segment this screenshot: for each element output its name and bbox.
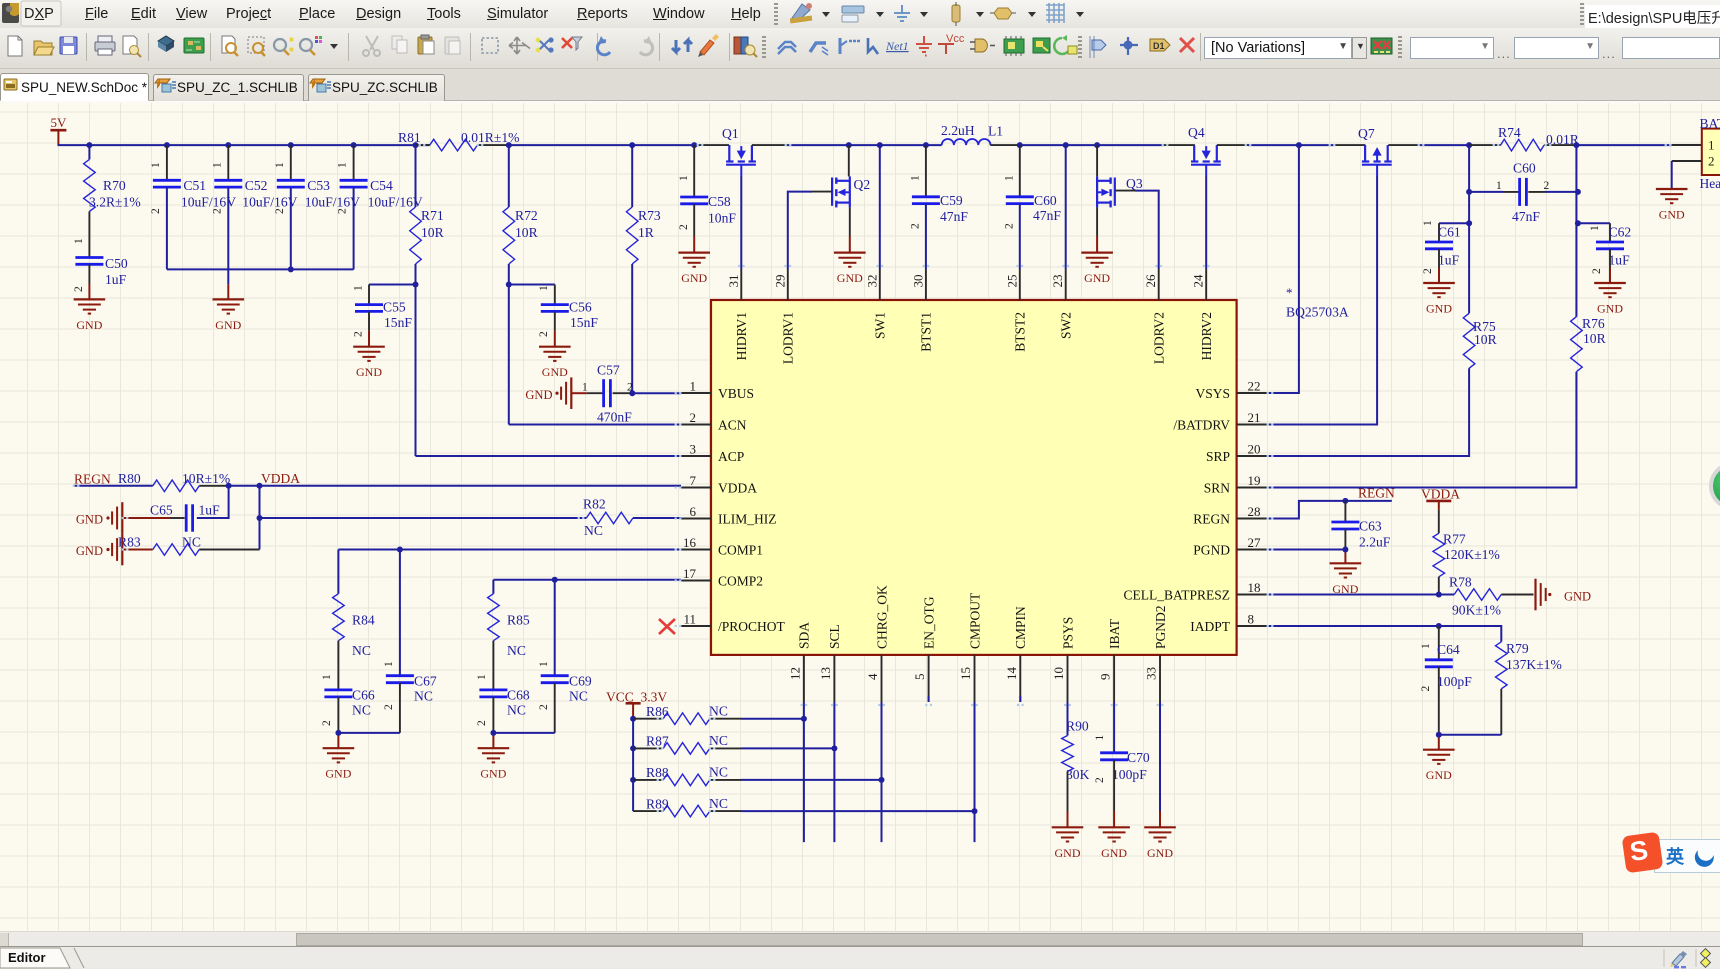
menu toolbar icon: drawing tools <box>790 3 830 24</box>
tab icon: schematic document <box>4 79 17 90</box>
svg-text:100pF: 100pF <box>1437 674 1472 689</box>
svg-text:2: 2 <box>538 331 550 337</box>
wire pin 27 to C63/GND <box>1267 550 1346 564</box>
svg-text:10R±1%: 10R±1% <box>182 471 230 486</box>
junction dot VSYS column <box>1296 142 1302 148</box>
menu toolbar icon: align <box>842 6 884 22</box>
ground GND under C63 <box>1330 563 1362 596</box>
svg-text:C66: C66 <box>352 688 375 703</box>
svg-text:10R: 10R <box>1474 332 1498 347</box>
svg-text:R78: R78 <box>1449 574 1472 589</box>
resistor R86 (NC) pullup to SDA <box>633 704 804 725</box>
net label VDDA <box>261 471 300 486</box>
svg-text:C53: C53 <box>307 178 330 193</box>
svg-text:R72: R72 <box>515 208 538 223</box>
junction dots VDDA node <box>226 483 263 489</box>
svg-text:C60: C60 <box>1513 161 1536 176</box>
junction dot R89 to CMPOUT column <box>972 808 978 814</box>
toolbar icon: place ports <box>1090 36 1106 58</box>
capacitor C58 (10nF) <box>678 145 736 253</box>
U1 pin 15 (CMPOUT) bottom <box>958 592 982 702</box>
U1 pin 1 (VBUS) left <box>681 379 754 401</box>
ground GND left of R83 <box>76 534 122 566</box>
svg-text:GND: GND <box>76 318 102 332</box>
toolbar icon: place component <box>1004 36 1024 56</box>
junction dot C68 bottom <box>490 730 496 736</box>
svg-text:2: 2 <box>211 208 223 214</box>
variations dropdown arrow <box>1344 44 1352 49</box>
svg-text:6: 6 <box>690 504 697 519</box>
svg-text:R90: R90 <box>1066 719 1089 734</box>
wire rail R81 to Q1 <box>509 144 729 146</box>
svg-text:/PROCHOT: /PROCHOT <box>718 619 786 634</box>
svg-text:3: 3 <box>690 442 697 457</box>
svg-text:1: 1 <box>353 285 365 291</box>
svg-text:C56: C56 <box>569 300 592 315</box>
wire C68/C69 common to ground <box>493 733 554 748</box>
junction dots R72/R73/C58 branches <box>506 142 697 148</box>
svg-text:15: 15 <box>958 667 973 680</box>
svg-text:1: 1 <box>1708 138 1715 153</box>
svg-text:5: 5 <box>912 674 927 681</box>
svg-text:R85: R85 <box>507 613 530 628</box>
U1 pin 29 (LODRV1) top <box>772 269 795 364</box>
wire C52 column to ground <box>227 269 229 299</box>
toolbar icon: paste special (disabled) <box>445 37 460 54</box>
svg-text:GND: GND <box>215 318 241 332</box>
svg-text:31: 31 <box>726 275 741 288</box>
U1 pin 14 (CMPIN) bottom <box>1004 606 1028 702</box>
svg-text:0.01R±1%: 0.01R±1% <box>461 130 519 145</box>
svg-text:C50: C50 <box>105 256 128 271</box>
svg-text:LODRV1: LODRV1 <box>781 312 796 364</box>
svg-text:1: 1 <box>150 162 162 168</box>
capacitor C52 (10uF/16V) <box>211 145 297 269</box>
svg-text:10R: 10R <box>1583 331 1607 346</box>
resistor R85 (NC) <box>476 580 530 690</box>
toolbar icon: browse component library <box>734 37 757 57</box>
svg-text:GND: GND <box>1101 846 1127 860</box>
svg-text:32: 32 <box>864 275 879 288</box>
svg-text:1: 1 <box>383 661 395 667</box>
svg-text:NC: NC <box>352 643 371 658</box>
svg-text:VDDA: VDDA <box>1421 486 1460 501</box>
wire bus joining C51-C54 bottoms <box>167 268 354 270</box>
svg-text:C52: C52 <box>245 178 268 193</box>
wire ACP row (R71 to pin 3) <box>416 455 682 457</box>
svg-text:GND: GND <box>837 271 863 285</box>
svg-text:CMPIN: CMPIN <box>1013 606 1028 649</box>
svg-text:GND: GND <box>1147 846 1173 860</box>
U1 pin 32 (SW1) top <box>864 269 887 339</box>
wire SW1 column (rail to pin 32) <box>879 145 881 269</box>
svg-text:C70: C70 <box>1127 750 1150 765</box>
svg-text:BAT: BAT <box>1700 116 1720 131</box>
svg-text:Q4: Q4 <box>1188 125 1205 140</box>
svg-text:C65: C65 <box>150 503 173 518</box>
toolbar icon: net label <box>885 39 909 53</box>
resistor R74 (0.01R) <box>1469 125 1580 151</box>
wire Q4 gate to HIDRV2 pin 24 <box>1205 176 1207 269</box>
svg-text:NC: NC <box>709 704 728 719</box>
floating green button <box>1709 462 1720 510</box>
wire rail Q7 to R74 <box>1388 144 1469 146</box>
svg-text:GND: GND <box>76 513 103 527</box>
power port 5V <box>50 115 67 145</box>
junction dots C60 right column <box>1575 189 1581 226</box>
svg-text:1: 1 <box>1004 175 1016 181</box>
svg-text:SDA: SDA <box>797 622 812 649</box>
svg-text:HIDRV2: HIDRV2 <box>1199 312 1214 360</box>
svg-text:CHRG_OK: CHRG_OK <box>874 585 889 649</box>
svg-text:2: 2 <box>910 223 922 229</box>
svg-text:C54: C54 <box>370 178 393 193</box>
svg-text:/BATDRV: /BATDRV <box>1173 417 1230 432</box>
ground GND under C52 <box>213 299 245 332</box>
wire COMP1 row to pin 16 <box>338 549 681 551</box>
wire R72 column down to ACN row <box>508 285 510 425</box>
ground GND under C56 <box>539 347 571 380</box>
toolbar icon: open <box>34 41 54 55</box>
junction dot R87 to SCL column <box>831 745 837 751</box>
svg-text:2: 2 <box>1708 154 1715 169</box>
resistor R84 (NC) <box>321 550 375 690</box>
capacitor C53 (10uF/16V) <box>274 145 360 269</box>
svg-text:PSYS: PSYS <box>1060 617 1075 649</box>
capacitor C62 (1uF) <box>1576 223 1631 283</box>
svg-text:1: 1 <box>1420 643 1432 649</box>
wire ILIM_HIZ row <box>260 486 587 550</box>
U1 pin 31 (HIDRV1) top <box>726 269 749 360</box>
svg-text:2.2uF: 2.2uF <box>1359 535 1391 550</box>
toolbar icon: paste <box>418 35 434 54</box>
svg-text:15nF: 15nF <box>570 315 598 330</box>
svg-text:2: 2 <box>150 208 162 214</box>
svg-text:R73: R73 <box>638 208 661 223</box>
svg-text:1: 1 <box>538 285 550 291</box>
svg-text:1: 1 <box>274 162 286 168</box>
junction dots on switch-node rail <box>846 142 1100 148</box>
wire C65 riser <box>197 486 229 518</box>
svg-text:1: 1 <box>538 661 550 667</box>
svg-text:D1: D1 <box>1153 41 1165 51</box>
svg-text:R88: R88 <box>646 765 669 780</box>
menu toolbar icon: part <box>952 2 984 26</box>
resistor R73 (1R) <box>626 145 660 393</box>
wire REGN stub <box>74 485 153 487</box>
svg-text:2: 2 <box>383 704 395 710</box>
wire SW2 column (rail to pin 23) <box>1065 145 1067 269</box>
svg-text:14: 14 <box>1004 666 1019 680</box>
svg-text:2: 2 <box>1094 777 1106 783</box>
power port VDDA right <box>1421 486 1460 510</box>
resistor R72 (10R) <box>503 145 539 284</box>
toolbar icon: print <box>95 36 115 55</box>
svg-text:GND: GND <box>76 544 103 558</box>
toolbar icon: place bus <box>810 43 828 55</box>
svg-text:2: 2 <box>1544 180 1550 192</box>
svg-text:GND: GND <box>1426 302 1452 316</box>
toolbar icon: sheet entry <box>1054 35 1077 54</box>
svg-text:C67: C67 <box>414 674 437 689</box>
svg-text:1: 1 <box>337 162 349 168</box>
wire 5V rail from 5V port to R81 <box>58 144 430 146</box>
svg-text:2: 2 <box>337 208 349 214</box>
svg-text:33: 33 <box>1144 667 1159 680</box>
ground GND under R85/C68 <box>478 748 510 781</box>
ground GND under C62 <box>1594 283 1626 316</box>
wire pin 18 to R77/R78 <box>1267 594 1455 596</box>
svg-text:NC: NC <box>569 689 588 704</box>
wire VDDA row to pin 7 <box>229 485 681 487</box>
svg-text:IBAT: IBAT <box>1107 618 1122 649</box>
svg-text:PGND2: PGND2 <box>1153 605 1168 649</box>
svg-text:8: 8 <box>1248 612 1255 627</box>
toolbar icon: print preview <box>123 36 141 57</box>
U1 pin 3 (ACP) left <box>681 442 744 464</box>
U1 pin 23 (SW2) top <box>1050 269 1073 339</box>
svg-text:10R: 10R <box>421 225 445 240</box>
capacitor C64 (100pF) <box>1420 626 1472 735</box>
U1 pin 20 (SRP) right <box>1206 442 1267 464</box>
capacitor C66 (NC) <box>321 688 375 733</box>
wire Q3 gate to LODRV2 pin 26 <box>1115 191 1159 269</box>
svg-text:BTST2: BTST2 <box>1013 312 1028 352</box>
svg-text:BTST1: BTST1 <box>919 312 934 352</box>
toolbar icon: hierarchy up/down <box>672 40 692 52</box>
svg-text:2.2uH: 2.2uH <box>941 123 975 138</box>
toolbar icon: new document <box>8 36 22 56</box>
toolbar icon: undo <box>597 36 610 55</box>
svg-text:1: 1 <box>321 674 333 680</box>
svg-text:REGN: REGN <box>74 472 111 487</box>
U1 pin 18 (CELL_BATPRESZ) right <box>1123 580 1266 602</box>
svg-text:ILIM_HIZ: ILIM_HIZ <box>718 511 776 526</box>
svg-text:9: 9 <box>1098 674 1113 681</box>
capacitor C68 (NC) <box>476 688 530 733</box>
capacitor C67 (NC) <box>383 550 437 733</box>
wire COMP2 row to pin 17 <box>493 579 681 581</box>
svg-text:2: 2 <box>678 224 690 230</box>
svg-text:SW1: SW1 <box>873 312 888 339</box>
toolbar icon: VCC port <box>938 33 965 54</box>
svg-text:2: 2 <box>353 331 365 337</box>
capacitor C60 (47nF) bootstrap 2 <box>1004 145 1062 269</box>
svg-text:PGND: PGND <box>1193 542 1230 557</box>
svg-text:R84: R84 <box>352 613 375 628</box>
U1 pin 28 (REGN) right <box>1193 504 1266 526</box>
svg-text:1uF: 1uF <box>199 503 221 518</box>
svg-text:2: 2 <box>1004 223 1016 229</box>
svg-text:NC: NC <box>709 796 728 811</box>
capacitor C69 (NC) <box>538 580 592 733</box>
U1 pin 5 (EN_OTG) bottom <box>912 596 936 702</box>
editor tab <box>0 948 84 968</box>
toolbar icon: place part tool <box>868 38 878 54</box>
svg-text:L1: L1 <box>988 124 1003 139</box>
toolbar icon: zoom document <box>222 36 238 56</box>
wire pin 8 IADPT row <box>1267 626 1502 642</box>
resistor R90 (30K) on PSYS <box>1062 702 1090 827</box>
svg-text:470nF: 470nF <box>597 410 632 425</box>
ground GND under C58 <box>678 253 710 286</box>
ground GND under C64 <box>1423 750 1455 783</box>
toolbar icon: no-ERC cross <box>1180 38 1194 52</box>
combo arrow 2 <box>1583 45 1592 50</box>
svg-text:R77: R77 <box>1443 532 1466 547</box>
toolbar icon: junction <box>1120 37 1138 55</box>
svg-text:2: 2 <box>1420 686 1432 692</box>
ground GND under R90 <box>1052 827 1084 860</box>
svg-text:NC: NC <box>182 535 201 550</box>
svg-text:VCC_3.3V: VCC_3.3V <box>606 690 667 705</box>
wire C64/R79 common to ground <box>1439 735 1502 750</box>
svg-text:VBUS: VBUS <box>718 386 754 401</box>
wire CHRG_OK column below IC <box>881 702 883 842</box>
toolbar icon: clear filter <box>562 37 582 50</box>
DXP application icon <box>2 3 19 23</box>
resistor R70 (3.2R±1%) <box>73 145 141 257</box>
svg-text:SRN: SRN <box>1204 480 1231 495</box>
U1 pin 11 (/PROCHOT) left <box>681 612 786 634</box>
svg-text:C60: C60 <box>1034 193 1057 208</box>
toolbar icon: bus entry <box>840 38 860 54</box>
svg-text:7: 7 <box>690 473 697 488</box>
svg-text:IADPT: IADPT <box>1190 619 1231 634</box>
power port VCC_3.3V <box>606 690 667 719</box>
wire C66/C67 common to ground <box>338 733 400 748</box>
svg-text:10: 10 <box>1051 667 1066 680</box>
junction dot R75/C60 column at rail <box>1466 142 1472 148</box>
svg-text:29: 29 <box>772 275 787 288</box>
transistor Q7 (PMOS BATFET) <box>1358 126 1392 176</box>
wire column to C62/R76 <box>1575 145 1577 317</box>
svg-text:26: 26 <box>1143 274 1158 288</box>
wire Q7 gate to /BATDRV pin 21 <box>1267 176 1378 425</box>
combo arrow 1 <box>1478 45 1487 50</box>
svg-text:21: 21 <box>1248 410 1261 425</box>
wire rail to BAT connector <box>1576 144 1701 146</box>
svg-text:C58: C58 <box>708 194 731 209</box>
menu toolbar icon: net <box>990 8 1036 19</box>
ground GND right of R78 <box>1536 579 1592 611</box>
svg-text:R89: R89 <box>646 796 669 811</box>
svg-text:1R: 1R <box>638 225 655 240</box>
toolbar icon: move <box>509 37 530 54</box>
toolbar icon: select area <box>482 38 498 53</box>
U1 pin 19 (SRN) right <box>1204 473 1267 495</box>
junction dot IADPT/C64 <box>1436 623 1442 629</box>
ground GND under R84/C66 <box>323 748 355 781</box>
svg-text:3.2R±1%: 3.2R±1% <box>89 195 141 210</box>
svg-text:2: 2 <box>476 720 488 726</box>
U1 pin 24 (HIDRV2) top <box>1191 269 1214 360</box>
resistor R89 (NC) pullup to CMPOUT <box>633 796 974 817</box>
svg-text:120K±1%: 120K±1% <box>1444 547 1500 562</box>
svg-text:1: 1 <box>690 379 697 394</box>
sogou input bar <box>1654 839 1720 873</box>
svg-text:4: 4 <box>865 673 880 680</box>
svg-text:R87: R87 <box>646 734 669 749</box>
svg-text:SCL: SCL <box>827 624 842 649</box>
wire BAT pin 2 to ground <box>1672 161 1702 189</box>
svg-text:VDDA: VDDA <box>718 480 757 495</box>
U1 pin 17 (COMP2) left <box>681 566 763 588</box>
resistor R71 (10R) <box>410 145 445 284</box>
svg-text:GND: GND <box>542 365 568 379</box>
svg-text:R70: R70 <box>103 178 126 193</box>
wire Q3 source to ground <box>1096 207 1098 252</box>
tab icon: schlib 1 <box>155 79 176 92</box>
capacitor C59 (47nF) bootstrap 1 <box>910 145 969 269</box>
svg-text:SRP: SRP <box>1206 449 1230 464</box>
svg-text:R80: R80 <box>118 471 141 486</box>
transistor Q1 (PMOS) <box>722 126 756 176</box>
svg-text:Net1: Net1 <box>885 39 909 53</box>
toolbar icon: zoom components <box>300 36 322 55</box>
svg-text:R74: R74 <box>1498 125 1521 140</box>
svg-text:15nF: 15nF <box>384 315 412 330</box>
capacitor C70 (100pF) on IBAT <box>1094 702 1150 827</box>
U1 pin 21 (/BATDRV) right <box>1173 410 1266 432</box>
wire CMPIN stub below IC <box>1019 696 1021 702</box>
toolbar icon: pcb board <box>184 38 204 53</box>
resistor R87 (NC) pullup to SCL <box>633 733 834 754</box>
svg-text:C61: C61 <box>1438 225 1461 240</box>
svg-text:GND: GND <box>1597 302 1623 316</box>
svg-text:Q3: Q3 <box>1126 176 1143 191</box>
junction dots on VCC bus <box>630 716 636 783</box>
svg-text:NC: NC <box>584 523 603 538</box>
capacitor C61 (1uF) <box>1422 220 1469 283</box>
IC U? BQ25703A body <box>711 300 1237 655</box>
U1 pin 30 (BTST1) top <box>910 269 933 352</box>
U1 pin 25 (BTST2) top <box>1004 269 1027 352</box>
svg-text:30: 30 <box>910 275 925 288</box>
capacitor C54 (10uF/16V) <box>337 145 423 269</box>
transistor Q4 (PMOS) <box>1188 125 1221 176</box>
DXP menu button frame <box>21 1 61 26</box>
svg-text:137K±1%: 137K±1% <box>1506 657 1562 672</box>
svg-text:2: 2 <box>1422 268 1434 274</box>
svg-text:Head: Head <box>1700 176 1720 191</box>
svg-text:C57: C57 <box>597 363 620 378</box>
svg-text:COMP1: COMP1 <box>718 542 763 557</box>
svg-text:10R: 10R <box>515 225 539 240</box>
svg-text:1: 1 <box>1094 735 1106 741</box>
svg-text:CELL_BATPRESZ: CELL_BATPRESZ <box>1123 587 1230 602</box>
U1 pin 27 (PGND) right <box>1193 535 1266 557</box>
svg-text:GND: GND <box>1564 590 1591 604</box>
svg-text:R86: R86 <box>646 704 669 719</box>
svg-text:27: 27 <box>1248 535 1262 550</box>
resistor R78 (90K±1%) <box>1449 574 1534 617</box>
svg-text:COMP2: COMP2 <box>718 573 763 588</box>
toolbar icon: zoom selected <box>274 38 293 55</box>
svg-text:1: 1 <box>73 238 85 244</box>
svg-text:ACP: ACP <box>718 449 744 464</box>
wire VCC_3.3V bus down <box>632 719 634 811</box>
svg-text:C68: C68 <box>507 688 530 703</box>
svg-text:1: 1 <box>1496 180 1502 192</box>
svg-text:GND: GND <box>356 365 382 379</box>
svg-text:LODRV2: LODRV2 <box>1152 312 1167 364</box>
svg-text:25: 25 <box>1004 274 1019 287</box>
wire R71 column down to ACP row <box>415 285 417 457</box>
svg-text:2: 2 <box>538 704 550 710</box>
svg-text:1: 1 <box>1422 220 1434 226</box>
resistor R80 (10R±1%) <box>118 471 230 492</box>
